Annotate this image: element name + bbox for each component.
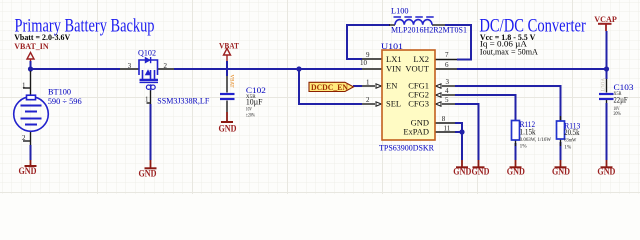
svg-text:VBAT_IN: VBAT_IN	[14, 41, 49, 51]
svg-text:VIN: VIN	[386, 64, 401, 74]
svg-text:1%: 1%	[564, 145, 571, 150]
svg-text:10: 10	[360, 59, 368, 67]
svg-text:±20%: ±20%	[246, 113, 255, 118]
svg-text:11: 11	[444, 124, 451, 132]
svg-text:VBAT: VBAT	[229, 75, 234, 88]
svg-text:LX2: LX2	[413, 54, 429, 64]
svg-text:3: 3	[128, 62, 132, 70]
svg-text:1: 1	[366, 78, 370, 86]
svg-text:VOUT: VOUT	[405, 64, 429, 74]
svg-text:TPS63900DSKR: TPS63900DSKR	[379, 142, 434, 152]
svg-text:X5R: X5R	[614, 92, 623, 97]
svg-text:20%: 20%	[614, 112, 621, 117]
svg-text:CFG3: CFG3	[408, 99, 429, 109]
svg-text:1: 1	[22, 82, 26, 90]
svg-text:1.15k: 1.15k	[520, 126, 537, 136]
svg-text:GND: GND	[219, 124, 237, 134]
svg-text:1: 1	[145, 96, 149, 104]
svg-text:2: 2	[366, 96, 370, 104]
svg-text:VCAP: VCAP	[594, 14, 617, 24]
svg-text:GND: GND	[552, 167, 570, 177]
svg-text:SEL: SEL	[386, 99, 401, 109]
svg-text:GND: GND	[19, 166, 37, 176]
svg-text:3: 3	[446, 78, 450, 86]
svg-text:4: 4	[445, 87, 449, 95]
svg-text:C103: C103	[614, 82, 634, 92]
svg-text:MLP2016H2R2MT0S1: MLP2016H2R2MT0S1	[391, 25, 467, 35]
svg-text:ExPAD: ExPAD	[403, 127, 429, 137]
svg-text:63mW: 63mW	[564, 139, 576, 144]
svg-text:BT100: BT100	[48, 87, 72, 97]
svg-text:0.063W, 1/16W: 0.063W, 1/16W	[520, 138, 552, 143]
svg-text:1%: 1%	[520, 144, 527, 149]
svg-text:DCDC_EN: DCDC_EN	[311, 82, 349, 92]
svg-text:GND: GND	[453, 167, 471, 177]
svg-text:2: 2	[164, 62, 168, 70]
svg-text:GND: GND	[472, 167, 490, 177]
svg-text:Q102: Q102	[138, 47, 156, 57]
svg-text:GND: GND	[139, 168, 157, 178]
svg-text:L100: L100	[391, 6, 409, 16]
svg-text:EN: EN	[386, 81, 397, 91]
svg-text:9: 9	[366, 51, 370, 59]
svg-text:10V: 10V	[246, 107, 252, 112]
svg-text:SSM3J338R,LF: SSM3J338R,LF	[157, 96, 209, 106]
svg-text:6: 6	[445, 61, 449, 69]
svg-text:20.5k: 20.5k	[564, 127, 580, 137]
svg-text:U101: U101	[381, 41, 403, 51]
svg-text:VBAT: VBAT	[219, 40, 239, 50]
svg-text:GND: GND	[507, 167, 525, 177]
svg-text:7: 7	[445, 51, 449, 59]
svg-text:C102: C102	[246, 85, 266, 95]
svg-text:2: 2	[22, 134, 26, 142]
svg-text:590 ÷ 596: 590 ÷ 596	[48, 96, 83, 106]
svg-text:Iout,max = 50mA: Iout,max = 50mA	[480, 47, 539, 57]
svg-text:LX1: LX1	[386, 54, 402, 64]
svg-text:X5R: X5R	[246, 95, 257, 100]
svg-text:5: 5	[445, 96, 449, 104]
svg-text:GND: GND	[597, 167, 615, 177]
svg-text:VOUT: VOUT	[599, 78, 604, 92]
svg-text:8: 8	[442, 115, 446, 123]
